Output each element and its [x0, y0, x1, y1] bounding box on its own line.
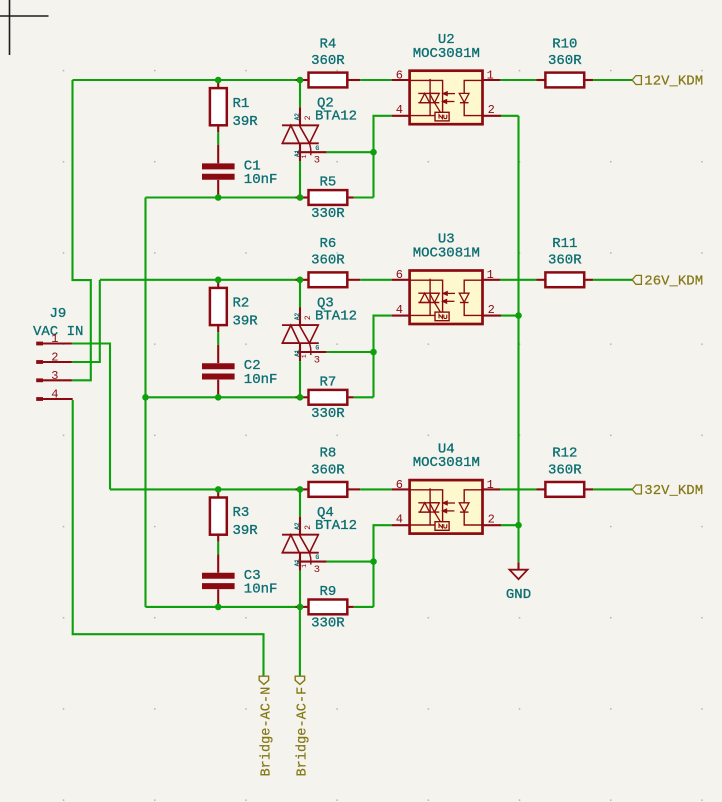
wire: [299, 361, 301, 397]
svg-text:4: 4: [51, 388, 58, 402]
svg-text:MOC3081M: MOC3081M: [413, 46, 480, 62]
svg-text:360R: 360R: [311, 462, 345, 478]
wire common bottom bus: [144, 198, 146, 607]
junction: [215, 277, 222, 284]
triac Q4 BTA12: [299, 489, 301, 516]
wire pin2 to channel2 top: [72, 280, 100, 362]
wire: [500, 79, 537, 81]
resistor R1 39R: [217, 80, 219, 88]
triac Q2 BTA12: [299, 80, 301, 107]
svg-text:3: 3: [51, 369, 58, 383]
resistor R3 39R: [217, 489, 219, 497]
svg-text:R5: R5: [319, 175, 336, 191]
pin 2: [36, 360, 43, 364]
wire gate riser: [354, 196, 374, 198]
svg-text:360R: 360R: [548, 253, 582, 269]
opto-triac U2 MOC3081M: [392, 79, 410, 81]
svg-text:2: 2: [51, 351, 58, 365]
wire pin2: [501, 115, 519, 117]
svg-text:R7: R7: [319, 374, 336, 390]
wire: bottom bus row channel 3: [146, 606, 301, 608]
junction: [515, 312, 522, 319]
wire: [500, 488, 537, 490]
wire: [299, 571, 301, 607]
wire: [360, 488, 392, 490]
svg-text:1: 1: [487, 68, 494, 82]
svg-text:2: 2: [304, 315, 313, 320]
svg-text:330R: 330R: [311, 616, 345, 632]
wire: [593, 279, 633, 281]
junction: [297, 77, 304, 84]
svg-text:A2: A2: [294, 312, 301, 320]
wire: bottom bus row channel 1: [146, 196, 301, 198]
resistor R7 330R: [296, 396, 309, 398]
resistor R4 360R: [296, 79, 309, 81]
svg-text:R11: R11: [552, 236, 577, 252]
svg-text:Bridge-AC-N: Bridge-AC-N: [260, 687, 275, 777]
wire: [360, 279, 392, 281]
svg-text:R10: R10: [552, 36, 577, 52]
junction: [297, 394, 304, 401]
wire: bottom bus row channel 2: [146, 396, 301, 398]
resistor R6 360R: [296, 279, 309, 281]
svg-text:10nF: 10nF: [244, 172, 278, 188]
svg-text:R4: R4: [319, 36, 336, 52]
svg-text:2: 2: [488, 303, 495, 317]
svg-text:R9: R9: [319, 584, 336, 600]
svg-text:A2: A2: [294, 113, 301, 121]
pin 1: [36, 342, 43, 346]
svg-text:39R: 39R: [233, 114, 259, 130]
junction: [297, 486, 304, 493]
svg-text:A1: A1: [294, 349, 301, 357]
wire: [299, 161, 301, 197]
pin 4: [36, 397, 43, 401]
wire gate riser: [354, 396, 374, 398]
junction: [297, 604, 304, 611]
svg-text:1: 1: [301, 564, 308, 568]
junction: [215, 194, 222, 201]
svg-text:Bridge-AC-F: Bridge-AC-F: [296, 687, 311, 777]
junction: [370, 558, 377, 565]
svg-text:32V_KDM: 32V_KDM: [644, 483, 703, 499]
opto-triac U4 MOC3081M: [392, 488, 410, 490]
svg-text:2: 2: [488, 103, 495, 117]
svg-text:2: 2: [304, 115, 313, 120]
opto-triac U3 MOC3081M: [392, 279, 410, 281]
svg-text:2: 2: [488, 513, 495, 527]
wire pin2: [501, 315, 519, 317]
junction: [215, 604, 222, 611]
svg-text:360R: 360R: [548, 462, 582, 478]
svg-text:4: 4: [396, 103, 403, 117]
wire: top bus row channel 3: [110, 488, 300, 490]
svg-text:10nF: 10nF: [244, 582, 278, 598]
svg-text:G: G: [316, 345, 320, 352]
wire gate: [327, 351, 374, 353]
svg-text:GND: GND: [506, 587, 531, 603]
svg-text:1: 1: [487, 478, 494, 492]
svg-text:39R: 39R: [233, 314, 259, 330]
svg-text:2: 2: [304, 525, 313, 530]
svg-text:1: 1: [51, 332, 58, 346]
wire: [360, 79, 392, 81]
svg-text:12V_KDM: 12V_KDM: [644, 74, 703, 90]
svg-text:3: 3: [314, 155, 320, 167]
resistor R9 330R: [296, 606, 309, 608]
svg-text:1: 1: [487, 268, 494, 282]
global label 32V_KDM: [632, 485, 641, 494]
wire: [217, 542, 219, 555]
svg-text:6: 6: [396, 478, 403, 492]
wire gate riser: [354, 606, 374, 608]
wire pin1 to channel3 top: [72, 344, 110, 490]
wire: [593, 488, 633, 490]
svg-text:3: 3: [314, 354, 320, 366]
wire: top bus row channel 2: [100, 279, 300, 281]
svg-text:A1: A1: [294, 559, 301, 567]
svg-text:6: 6: [396, 268, 403, 282]
svg-text:360R: 360R: [311, 53, 345, 69]
global label 12V_KDM: [632, 76, 641, 85]
capacitor C3 10nF: [217, 554, 219, 572]
svg-text:G: G: [316, 554, 320, 561]
junction: [297, 277, 304, 284]
resistor R2 39R: [217, 280, 219, 288]
global label 26V_KDM: [632, 275, 641, 284]
wire opto cathode bus to GND: [517, 116, 519, 563]
junction: [515, 522, 522, 529]
svg-text:3: 3: [314, 564, 320, 576]
resistor R11 360R: [537, 279, 546, 281]
svg-text:1: 1: [301, 354, 308, 358]
wire: [217, 132, 219, 145]
sheet origin crosshair: [9, 0, 11, 55]
wire: [500, 279, 537, 281]
svg-text:4: 4: [396, 303, 403, 317]
pin 3: [36, 378, 43, 382]
junction: [215, 77, 222, 84]
wire gate: [327, 151, 374, 153]
wire pin2: [501, 524, 519, 526]
global label Bridge-AC-F: [295, 676, 304, 684]
svg-text:R2: R2: [233, 296, 250, 312]
svg-text:39R: 39R: [233, 523, 259, 539]
ground GND: [517, 562, 519, 569]
svg-text:BTA12: BTA12: [315, 308, 357, 324]
svg-text:26V_KDM: 26V_KDM: [644, 274, 703, 290]
svg-text:360R: 360R: [311, 253, 345, 269]
svg-text:1: 1: [301, 155, 308, 159]
capacitor C1 10nF: [217, 145, 219, 163]
svg-text:6: 6: [396, 68, 403, 82]
resistor R12 360R: [537, 488, 546, 490]
svg-text:BTA12: BTA12: [315, 518, 357, 534]
svg-text:10nF: 10nF: [244, 372, 278, 388]
junction: [370, 349, 377, 356]
triac Q3 BTA12: [299, 280, 301, 307]
capacitor C2 10nF: [217, 345, 219, 363]
junction: [215, 486, 222, 493]
svg-text:A1: A1: [294, 149, 301, 157]
svg-text:G: G: [316, 145, 320, 152]
svg-text:MOC3081M: MOC3081M: [413, 246, 480, 262]
svg-text:BTA12: BTA12: [315, 109, 357, 125]
svg-text:MOC3081M: MOC3081M: [413, 455, 480, 471]
svg-text:R3: R3: [233, 505, 250, 521]
svg-text:330R: 330R: [311, 206, 345, 222]
svg-text:R12: R12: [552, 446, 577, 462]
wire: [217, 332, 219, 345]
wire pin3 to channel1 top (node AC): [72, 80, 91, 380]
svg-text:330R: 330R: [311, 406, 345, 422]
svg-text:R6: R6: [319, 236, 336, 252]
wire gate: [327, 561, 374, 563]
junction: [215, 394, 222, 401]
junction: [142, 394, 149, 401]
svg-text:A2: A2: [294, 522, 301, 530]
wire: [593, 79, 633, 81]
svg-text:R1: R1: [233, 96, 250, 112]
svg-text:J9: J9: [50, 306, 67, 322]
resistor R5 330R: [296, 196, 309, 198]
svg-text:360R: 360R: [548, 53, 582, 69]
wire: top bus row channel 1: [73, 79, 301, 81]
resistor R8 360R: [296, 488, 309, 490]
resistor R10 360R: [537, 79, 546, 81]
svg-text:R8: R8: [319, 446, 336, 462]
svg-text:4: 4: [396, 513, 403, 527]
wire to Bridge-AC-F: [299, 607, 301, 676]
junction: [297, 194, 304, 201]
global label Bridge-AC-N: [259, 676, 268, 684]
wire pin4 to Bridge-AC-N: [73, 400, 264, 676]
junction: [370, 149, 377, 156]
